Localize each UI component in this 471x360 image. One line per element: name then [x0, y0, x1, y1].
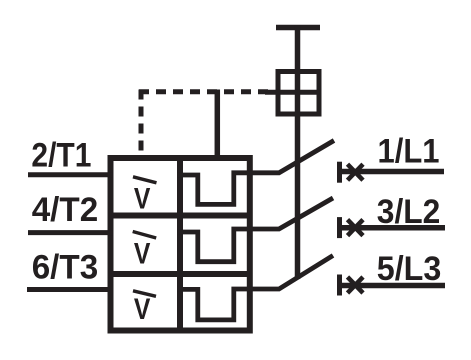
- svg-text:V: V: [134, 293, 151, 326]
- svg-text:V: V: [134, 237, 151, 270]
- svg-text:6/T3: 6/T3: [32, 248, 99, 286]
- svg-text:4/T2: 4/T2: [32, 191, 99, 229]
- svg-text:3/L2: 3/L2: [377, 193, 441, 231]
- svg-text:1/L1: 1/L1: [378, 133, 440, 171]
- svg-text:V: V: [134, 183, 151, 216]
- svg-text:2/T1: 2/T1: [31, 136, 91, 174]
- svg-text:5/L3: 5/L3: [377, 250, 442, 288]
